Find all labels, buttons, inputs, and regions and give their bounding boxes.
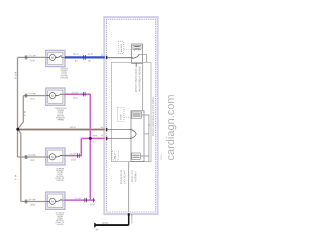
label branch2 circuit <box>29 93 36 94</box>
label ground wire <box>102 222 108 223</box>
connector C7 ticks <box>78 153 80 157</box>
label trunk circuit <box>59 118 62 119</box>
pin 14 tick <box>106 128 108 131</box>
relay K2 annotation box <box>118 108 125 122</box>
relay K1 switch <box>133 55 139 58</box>
label motor M4 name <box>56 212 65 225</box>
label blue left circuit <box>73 53 78 54</box>
label bottom rotated3 <box>131 170 132 182</box>
inner assembly rect <box>111 62 151 161</box>
motor M1 box <box>46 50 65 66</box>
label magenta splice <box>92 141 96 142</box>
label motor M1 name <box>60 68 68 79</box>
wire trunk to module <box>18 129 105 131</box>
label relay K1 annotation <box>121 44 122 52</box>
ground pin tick <box>128 213 130 216</box>
wire vertical left B <box>18 96 24 129</box>
connector C8 ticks <box>85 198 94 202</box>
wire magenta M4 exit <box>65 138 95 200</box>
label branch1 circuit <box>29 55 36 56</box>
relay K3 annotation box <box>112 151 119 160</box>
pin 17 tick <box>106 137 108 140</box>
relay K1 bottom stub <box>136 63 138 66</box>
relay K1 coil <box>133 45 141 51</box>
label magenta M4 circuit <box>75 198 82 199</box>
module U1 driver door module outline <box>107 19 156 212</box>
wire branch to M4 <box>21 201 46 203</box>
connector C5 ticks on blue wire <box>84 55 86 60</box>
label magenta M3 connector <box>71 159 76 160</box>
label vertical wire1 <box>15 72 16 79</box>
label blue left color <box>75 60 77 61</box>
label trunk circuit2 <box>70 127 76 128</box>
wire blue inside module <box>107 57 133 59</box>
label pin 21 <box>101 54 103 55</box>
label branch3 connector <box>30 159 35 160</box>
label relay K2 annotation <box>120 114 121 119</box>
connector C3 ticks on branch 3 <box>25 155 27 159</box>
wire branch to M2 <box>23 95 45 97</box>
connector C6 ticks <box>84 92 86 96</box>
wire branch to M1 <box>18 56 46 58</box>
wire vertical left A <box>17 57 19 129</box>
relay K1 box <box>132 44 143 63</box>
splice S2 <box>89 137 92 140</box>
relay K2 switch dots <box>130 129 131 139</box>
wire K2 top to bus <box>140 115 149 162</box>
connector C1 ticks on branch 1 <box>25 55 27 59</box>
relay K2 leader line <box>124 116 132 118</box>
label bottom rotated1 <box>120 170 121 184</box>
wire ground horizontal black <box>96 224 129 226</box>
label bottom rotated2 <box>124 170 125 184</box>
wire blue lock feed <box>65 56 105 58</box>
wire K2 mid stub <box>144 133 149 135</box>
label vertical wire2 <box>24 111 25 116</box>
relay K1 switch dots <box>132 54 139 59</box>
label ground circuit rotated <box>131 214 132 223</box>
module U1 highlight halo <box>104 17 157 214</box>
ground end tick <box>94 223 95 227</box>
relay K2 switch <box>131 130 136 139</box>
label magenta pin circuit <box>93 135 97 136</box>
relay K1 annotation box <box>118 42 124 54</box>
wire gray inside module <box>107 129 131 131</box>
label branch4 circuit <box>29 199 36 200</box>
wire vertical left D <box>18 129 21 202</box>
motor M4 box <box>46 192 65 209</box>
label blue right color <box>88 60 90 61</box>
label branch3 circuit <box>29 154 36 155</box>
watermark cardiagn <box>166 95 176 160</box>
label magenta M4 connector <box>90 204 95 205</box>
label K2 pin <box>148 124 149 126</box>
label blue right circuit <box>88 53 93 54</box>
label pin 17 <box>101 135 103 136</box>
label magenta M2 connector <box>73 97 78 98</box>
label module name rotated <box>152 97 154 136</box>
wire magenta to module <box>81 137 105 139</box>
label inner assembly rotated1 <box>135 62 136 91</box>
label branch1 connector <box>30 60 35 61</box>
motor M2 box <box>46 88 65 105</box>
wire magenta inside module <box>107 137 131 139</box>
wire relay K1 to relay K2 <box>142 63 144 111</box>
label module edge rotated <box>161 154 162 160</box>
label magenta M2 circuit <box>72 92 79 93</box>
motor M3 box <box>46 148 65 165</box>
relay K2 coil bottom <box>132 153 141 159</box>
label magenta M3 circuit <box>70 153 77 154</box>
label relay K3 annotation <box>114 153 115 159</box>
label trunk pin <box>101 127 103 128</box>
relay K1 leader lines <box>124 48 132 50</box>
label vertical wire3 <box>15 175 16 180</box>
wire branch to M3 <box>18 156 46 158</box>
relay K2 box <box>131 111 144 162</box>
wire magenta M3 exit <box>65 138 81 155</box>
wire vertical left C <box>17 129 19 157</box>
connector C4 ticks on branch 4 <box>25 200 27 204</box>
label branch4 connector <box>30 204 35 205</box>
label motor M2 name <box>55 108 67 121</box>
wire magenta M2 exit <box>65 94 90 138</box>
label motor M3 name <box>56 168 65 181</box>
label bottom rotated4 <box>135 171 136 182</box>
splice S1 <box>16 128 19 131</box>
wire ground exit inside <box>128 162 130 212</box>
label branch2 connector <box>30 98 35 99</box>
pin 21 tick <box>106 56 108 59</box>
label inner assembly rotated2 <box>139 66 140 92</box>
relay K2 coil top <box>132 112 142 118</box>
wire relay K1 to corner bus <box>139 55 147 63</box>
wire ground vertical black <box>128 214 130 225</box>
label ground color <box>96 229 98 230</box>
connector C2 ticks on branch 2 <box>25 94 27 98</box>
